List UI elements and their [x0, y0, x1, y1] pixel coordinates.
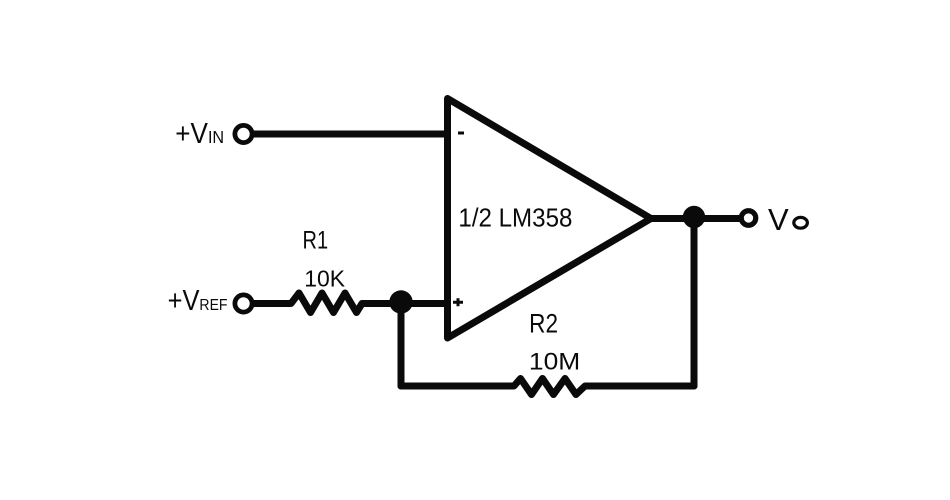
svg-text:1/2 LM358: 1/2 LM358 — [458, 204, 572, 233]
svg-text:10M: 10M — [529, 349, 580, 376]
svg-text:R2: R2 — [529, 310, 558, 339]
svg-text:R1: R1 — [303, 226, 329, 254]
svg-text:10K: 10K — [304, 265, 345, 291]
svg-text:V: V — [768, 202, 789, 237]
